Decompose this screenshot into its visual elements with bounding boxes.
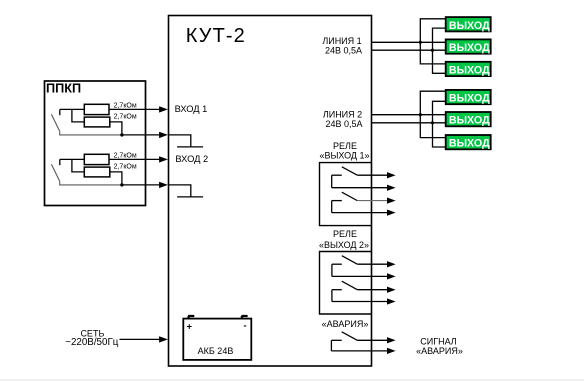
relay K1 contact1 vertical xyxy=(331,175,333,188)
lamp ВЫХОД 2.3 xyxy=(446,135,491,150)
svg-text:2,7кОм: 2,7кОм xyxy=(114,114,137,121)
relay K2 contact2 stub xyxy=(332,289,342,291)
page edge line xyxy=(0,379,584,381)
wire input2 top node xyxy=(60,158,85,160)
svg-text:ППКП: ППКП xyxy=(46,81,81,95)
svg-text:24В 0,5А: 24В 0,5А xyxy=(325,46,362,56)
relay K3 contact arm xyxy=(342,332,358,341)
relay K2 contact1 vertical xyxy=(331,264,333,276)
wire arrow K1 COM2 xyxy=(332,212,387,214)
svg-text:~220В/50Гц: ~220В/50Гц xyxy=(65,337,119,348)
svg-text:2,7кОм: 2,7кОм xyxy=(114,164,137,171)
relay K2 contact1 arm xyxy=(342,256,358,265)
ППКП panel box xyxy=(45,81,146,206)
svg-text:«ВЫХОД 2»: «ВЫХОД 2» xyxy=(319,240,369,250)
svg-text:РЕЛЕ: РЕЛЕ xyxy=(333,229,357,239)
junction line2 A xyxy=(419,113,422,116)
common bar input1 xyxy=(177,146,203,148)
wire R4 output down xyxy=(110,172,122,185)
relay K2 contact2 arm xyxy=(342,281,358,290)
wire input2 bottom left xyxy=(60,181,122,185)
relay K3 contact stub xyxy=(331,339,341,341)
wire arrow K2 COM1 xyxy=(332,275,387,277)
lamp ВЫХОД 1.2 xyxy=(446,39,491,54)
relay K2 box xyxy=(320,252,372,315)
svg-text:КУТ-2: КУТ-2 xyxy=(186,25,246,47)
common symbol input2 xyxy=(169,185,191,197)
common bar input2 xyxy=(177,196,203,198)
resistor R3 xyxy=(84,154,109,164)
wire line2 branch A xyxy=(420,91,445,137)
relay K1 contact2 vertical xyxy=(331,201,333,213)
svg-text:ВЫХОД: ВЫХОД xyxy=(449,93,490,105)
svg-text:ВЫХОД: ВЫХОД xyxy=(449,115,490,127)
svg-text:ВЫХОД: ВЫХОД xyxy=(449,138,490,150)
wire line1 bus minus xyxy=(372,49,446,51)
wire R2 output down xyxy=(110,122,122,135)
junction line1 B xyxy=(431,49,434,52)
svg-text:ВХОД 1: ВХОД 1 xyxy=(175,104,208,114)
wire line1 branch B xyxy=(433,28,446,73)
wire arrow fault COM xyxy=(331,350,387,352)
svg-text:ЛИНИЯ 2: ЛИНИЯ 2 xyxy=(323,110,362,120)
relay K1 contact2 stub xyxy=(332,200,342,202)
switch S1 arm xyxy=(51,114,59,131)
svg-text:АКБ 24В: АКБ 24В xyxy=(198,346,234,356)
wire arrow ВХОД 1 xyxy=(109,108,159,110)
wire input2 switch stub xyxy=(59,159,61,165)
lamp ВЫХОД 2.1 xyxy=(446,90,491,105)
battery GB1 АКБ 24В xyxy=(183,319,251,360)
svg-text:«ВЫХОД 1»: «ВЫХОД 1» xyxy=(319,151,369,161)
svg-text:2,7кОм: 2,7кОм xyxy=(114,102,137,109)
junction line1 A xyxy=(419,41,422,44)
wire arrow K2 COM2 xyxy=(332,301,387,303)
svg-text:+: + xyxy=(187,322,193,333)
svg-text:ВЫХОД: ВЫХОД xyxy=(449,20,490,32)
svg-text:2,7кОм: 2,7кОм xyxy=(114,152,137,159)
svg-text:«АВАРИЯ»: «АВАРИЯ» xyxy=(416,346,463,356)
wire arrow K2 NO2 xyxy=(357,289,387,291)
wire line2 bus minus xyxy=(372,122,446,124)
wire line1 bus plus xyxy=(372,41,446,43)
wire input2 branch to R4 xyxy=(72,159,84,172)
wire input1 branch to R2 xyxy=(72,109,84,122)
svg-text:ВЫХОД: ВЫХОД xyxy=(449,42,490,54)
wire arrow input2 return xyxy=(122,184,159,186)
device КУТ-2 enclosure xyxy=(169,16,372,367)
resistor R4 xyxy=(84,167,110,177)
wire arrow K1 NO2 xyxy=(357,200,387,202)
lamp ВЫХОД 1.3 xyxy=(446,62,491,77)
svg-text:24В 0,5А: 24В 0,5А xyxy=(325,119,362,129)
wire line2 bus plus xyxy=(372,114,446,116)
junction input2 xyxy=(120,183,123,186)
battery terminal right xyxy=(242,316,248,319)
resistor R1 xyxy=(84,104,109,114)
wire arrow fault NO xyxy=(357,339,387,341)
relay K2 contact1 stub xyxy=(332,263,342,265)
relay K1 contact1 arm xyxy=(342,167,358,175)
switch S2 arm xyxy=(51,164,59,181)
relay K1 contact1 stub xyxy=(332,174,342,176)
wire input1 bottom left xyxy=(60,131,122,135)
relay K1 contact2 arm xyxy=(342,192,358,200)
svg-text:«АВАРИЯ»: «АВАРИЯ» xyxy=(322,319,369,329)
battery terminal left xyxy=(188,316,194,319)
common symbol input1 xyxy=(169,135,191,147)
wire arrow input1 return xyxy=(122,134,159,136)
wire input1 top node xyxy=(60,108,85,110)
junction input1 xyxy=(120,133,123,136)
junction line2 B xyxy=(431,121,434,124)
svg-text:СИГНАЛ: СИГНАЛ xyxy=(420,336,457,346)
lamp ВЫХОД 2.2 xyxy=(446,112,491,127)
wire arrow K1 COM1 xyxy=(332,187,387,189)
wire arrow ВХОД 2 xyxy=(109,158,159,160)
wire arrow K1 NO1 xyxy=(357,174,387,176)
wire line2 branch B xyxy=(433,101,446,147)
svg-text:ВЫХОД: ВЫХОД xyxy=(449,65,490,77)
lamp ВЫХОД 1.1 xyxy=(446,17,491,32)
svg-text:-: - xyxy=(244,320,247,331)
wire arrow K2 NO1 xyxy=(357,263,387,265)
wire line1 branch A xyxy=(420,19,445,64)
relay K1 box xyxy=(320,163,372,226)
resistor R2 xyxy=(84,117,110,127)
relay K3 contact vertical xyxy=(330,340,332,351)
wire arrow mains xyxy=(120,338,160,340)
svg-text:ВХОД 2: ВХОД 2 xyxy=(175,154,208,164)
svg-text:РЕЛЕ: РЕЛЕ xyxy=(333,141,357,151)
relay K2 contact2 vertical xyxy=(331,290,333,302)
svg-text:ЛИНИЯ 1: ЛИНИЯ 1 xyxy=(322,36,361,46)
wire input1 switch stub xyxy=(59,109,61,115)
